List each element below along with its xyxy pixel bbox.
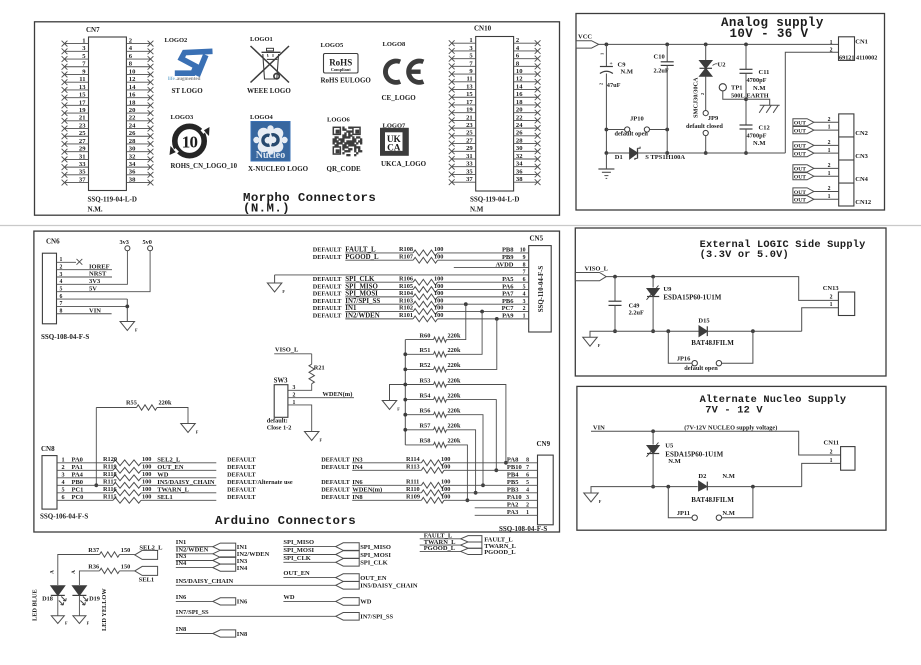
resistor R55 220k: [126, 400, 172, 411]
svg-text:6: 6: [523, 277, 526, 283]
CN10 pin 28: [514, 137, 541, 146]
svg-text:7V - 12 V: 7V - 12 V: [705, 405, 763, 417]
CN8 pin 3 PA4 row: [57, 472, 257, 479]
svg-text:19: 19: [79, 107, 86, 114]
VCC input flag: [576, 34, 599, 49]
svg-text:OUT: OUT: [794, 128, 806, 134]
svg-text:18: 18: [129, 99, 136, 106]
svg-text:PB6: PB6: [502, 298, 514, 305]
net label TWARN_L (col3): [420, 539, 461, 546]
svg-text:DEFAULT: DEFAULT: [321, 464, 350, 471]
resistor R57 220k: [405, 423, 461, 433]
svg-text:OUT: OUT: [794, 121, 806, 127]
connector CN11: [824, 440, 856, 471]
svg-text:17: 17: [466, 99, 473, 106]
CN10 pin 18: [514, 99, 541, 108]
wire U9 bottom: [652, 297, 654, 332]
wire U9 top: [652, 277, 654, 288]
CN10 pin 30: [514, 145, 541, 154]
svg-text:U9: U9: [663, 286, 672, 293]
svg-text:IN3: IN3: [176, 553, 187, 560]
CN7 pin 36: [126, 169, 153, 178]
svg-text:9: 9: [523, 255, 526, 261]
test point TP1: [719, 84, 769, 100]
wire IN4 row: [321, 464, 537, 471]
svg-text:R51: R51: [420, 347, 431, 354]
svg-text:100: 100: [434, 275, 443, 282]
wire PA2 stub: [475, 502, 538, 509]
svg-text:(3.3V or 5.0V): (3.3V or 5.0V): [700, 249, 789, 261]
svg-text:100: 100: [434, 246, 443, 253]
CN3 OUT flag 2: [793, 142, 814, 150]
node rail-C11: [744, 43, 748, 47]
wire U2-JP9: [705, 76, 707, 110]
CE logo: [383, 59, 424, 85]
svg-text:JP9: JP9: [708, 115, 719, 122]
resistor R106 100: [399, 275, 443, 285]
svg-text:14: 14: [516, 83, 523, 90]
diode D1 STPS1H100A: [615, 147, 686, 161]
svg-text:F: F: [196, 430, 199, 435]
CN7 pin 26: [126, 130, 153, 139]
svg-text:7: 7: [526, 465, 529, 471]
ground CN6: [120, 322, 135, 331]
node PB10 row: [494, 468, 498, 472]
svg-text:WDEN(m): WDEN(m): [322, 391, 352, 398]
svg-text:DEFAULT: DEFAULT: [321, 479, 350, 486]
diode D2 BAT48JFILM: [691, 473, 735, 504]
svg-text:DEFAULT: DEFAULT: [321, 457, 350, 464]
CN7 pin 35: [62, 169, 89, 178]
wire C10 bottom: [666, 65, 668, 153]
svg-text:F: F: [65, 621, 68, 626]
CN10 pin 25: [449, 130, 476, 139]
net label SPI_CLK (col2): [283, 555, 335, 563]
svg-text:IN8: IN8: [237, 631, 248, 638]
svg-text:SEL1: SEL1: [157, 494, 173, 501]
svg-text:IN6: IN6: [176, 594, 187, 601]
wire SPI_CLK row: [313, 276, 529, 283]
svg-text:3: 3: [293, 385, 296, 391]
svg-text:BAT48JFILM: BAT48JFILM: [691, 496, 734, 504]
svg-text:A: A: [71, 570, 77, 574]
ground pin7: [267, 283, 282, 292]
svg-text:NRST: NRST: [89, 271, 107, 278]
CN10 pin 1: [449, 37, 476, 46]
connector CN7: [86, 26, 126, 191]
node rail-C10: [665, 43, 669, 47]
wire C11 bottom: [745, 73, 747, 125]
svg-text:WD: WD: [360, 599, 372, 606]
wire U5 top: [652, 431, 654, 444]
capacitor C9: [599, 52, 633, 89]
svg-text:PA9: PA9: [502, 313, 514, 320]
connector CN9: [537, 440, 554, 525]
svg-text:S TPS1H100A: S TPS1H100A: [645, 154, 685, 161]
svg-text:5V: 5V: [89, 285, 97, 292]
node PB0 row: [94, 483, 98, 487]
wire C9 top: [605, 44, 607, 66]
wire R6x gnd bus: [404, 340, 406, 445]
CN10 pin 5: [449, 53, 476, 62]
svg-text:PA2: PA2: [507, 502, 518, 509]
svg-text:31: 31: [79, 153, 86, 160]
net label IN2/WDEN: [176, 546, 213, 554]
wire C49 top: [614, 277, 616, 302]
svg-text:38: 38: [129, 176, 136, 183]
svg-text:150: 150: [121, 563, 130, 570]
svg-text:PB5: PB5: [507, 479, 519, 486]
svg-text:R114: R114: [406, 456, 420, 463]
flag IN6: [213, 598, 248, 606]
svg-text:31: 31: [466, 153, 473, 160]
svg-text:CA: CA: [387, 144, 401, 154]
svg-text:DEFAULT: DEFAULT: [313, 276, 342, 283]
flag SPI_MISO (col2): [336, 543, 391, 551]
svg-text:100: 100: [441, 464, 450, 471]
wire R58 to PA10: [453, 445, 467, 500]
svg-text:EARTH: EARTH: [747, 93, 769, 100]
CN7 pin 7: [62, 61, 89, 70]
flag TWARN_L (col3): [461, 542, 517, 550]
svg-text:22: 22: [516, 114, 523, 121]
resistor R105 100: [399, 283, 443, 293]
svg-text:21: 21: [79, 115, 86, 122]
svg-text:1: 1: [828, 125, 831, 131]
svg-text:ROHS_CN_LOGO_10: ROHS_CN_LOGO_10: [171, 163, 238, 170]
CN10 pin 24: [514, 122, 541, 131]
svg-text:default:: default:: [267, 418, 288, 425]
CN10 pin 33: [449, 161, 476, 170]
svg-text:10: 10: [516, 68, 523, 75]
svg-text:PB4: PB4: [507, 472, 519, 479]
resistor R117 100: [103, 479, 151, 489]
svg-text:BAT48JFILM: BAT48JFILM: [691, 339, 734, 347]
node C11-earth: [744, 97, 748, 101]
svg-text:JP10: JP10: [630, 116, 644, 123]
svg-text:N.M: N.M: [470, 205, 484, 213]
node U2-row2: [704, 151, 708, 155]
svg-text:R104: R104: [399, 290, 414, 297]
svg-text:IN3: IN3: [237, 558, 248, 565]
svg-text:SPI_MOSI: SPI_MOSI: [345, 291, 378, 298]
flag IN2/WDEN: [213, 550, 270, 558]
svg-text:37: 37: [79, 176, 86, 183]
power pin 5v0: [143, 239, 153, 251]
svg-text:26: 26: [129, 130, 136, 137]
CN7 pin 2: [126, 38, 153, 47]
svg-text:100: 100: [142, 479, 151, 486]
svg-text:D1: D1: [615, 154, 623, 161]
svg-text:SEL1: SEL1: [139, 577, 155, 584]
svg-text:DEFAULT: DEFAULT: [313, 283, 342, 290]
svg-text:16: 16: [516, 91, 523, 98]
wire TP1 to node: [723, 91, 746, 99]
CN10 pin 13: [449, 83, 476, 92]
svg-text:15: 15: [466, 91, 473, 98]
svg-text:SPI_CLK: SPI_CLK: [345, 276, 375, 283]
svg-text:C9: C9: [618, 62, 627, 69]
svg-text:CN6: CN6: [46, 238, 60, 246]
wire U2 top: [705, 44, 707, 60]
svg-text:R107: R107: [399, 253, 413, 260]
wire R37 left: [58, 555, 100, 586]
CN7 pin 29: [62, 146, 89, 155]
External LOGIC title: [700, 239, 866, 261]
wire R52 to PA9: [453, 319, 497, 370]
CN8 pin 6 PC0 row: [57, 494, 257, 501]
svg-text:16: 16: [129, 92, 136, 99]
svg-text:7: 7: [523, 270, 526, 276]
svg-text:22: 22: [129, 115, 136, 122]
svg-text:R113: R113: [406, 464, 420, 471]
svg-text:2.2uF: 2.2uF: [629, 310, 644, 317]
svg-text:47uF: 47uF: [607, 82, 621, 89]
svg-text:R56: R56: [420, 408, 431, 415]
net label VIN (nucleo): [593, 425, 777, 432]
svg-text:DEFAULT: DEFAULT: [313, 298, 342, 305]
svg-text:IN6: IN6: [237, 599, 248, 606]
Morpho Connectors frame: [35, 22, 560, 215]
wire PB4 stub: [507, 472, 538, 479]
svg-text:38: 38: [516, 176, 523, 183]
TVS diode U2: [693, 61, 726, 119]
svg-text:LOGO1: LOGO1: [250, 36, 273, 43]
node U5-row: [651, 485, 655, 489]
svg-text:LED BLUE: LED BLUE: [32, 589, 39, 621]
svg-text:N.M: N.M: [753, 140, 765, 147]
wire nucleo bottom row right: [708, 486, 802, 488]
CN7 pin 21: [62, 115, 89, 124]
capacitor C11: [740, 69, 770, 92]
CN8 pin 4 PB0 row: [57, 479, 293, 486]
wire R21 to SW3: [288, 384, 312, 391]
svg-text:1: 1: [82, 38, 85, 45]
svg-text:LED YELLOW: LED YELLOW: [101, 588, 108, 631]
svg-text:3v3: 3v3: [120, 239, 129, 246]
svg-text:36: 36: [129, 169, 136, 176]
svg-text:VIN: VIN: [593, 425, 605, 432]
node PB3 row: [474, 491, 478, 495]
svg-text:17: 17: [79, 99, 86, 106]
svg-text:WD: WD: [283, 594, 295, 601]
node C49-row: [613, 329, 617, 333]
resistor R37 150: [88, 547, 130, 557]
wire R37 to SEL2_L: [120, 554, 135, 556]
svg-text:D2: D2: [698, 473, 706, 480]
ground nucleo: [584, 493, 599, 502]
svg-text:N.M: N.M: [668, 458, 680, 465]
svg-text:C12: C12: [759, 125, 770, 132]
svg-text:35: 35: [79, 169, 86, 176]
svg-text:IN8: IN8: [352, 494, 363, 501]
svg-text:2: 2: [526, 503, 529, 509]
svg-text:R111: R111: [406, 479, 419, 486]
svg-text:default closed: default closed: [686, 123, 723, 130]
CN10 pin 3: [449, 45, 476, 54]
svg-text:CN11: CN11: [824, 440, 840, 447]
ROHS_CN_LOGO_10 (circle 10): [170, 126, 210, 155]
node rail-C49: [613, 275, 617, 279]
wire R55 left: [96, 407, 136, 409]
CN6 pin 7: [57, 301, 128, 307]
CN7 pin 30: [126, 146, 153, 155]
svg-text:D19: D19: [89, 596, 100, 603]
svg-text:21: 21: [466, 114, 473, 121]
svg-text:29: 29: [466, 145, 473, 152]
CN12 OUT flag 2: [793, 188, 814, 196]
resistor R120 100: [103, 456, 151, 466]
net label SPI_MOSI (col2): [283, 547, 335, 555]
svg-text:CN1: CN1: [855, 38, 868, 45]
svg-text:23: 23: [466, 122, 473, 129]
svg-text:2: 2: [828, 117, 831, 123]
Alternate Nucleo frame: [577, 386, 886, 530]
svg-text:220k: 220k: [448, 377, 461, 384]
wire C49 bottom: [614, 305, 616, 331]
svg-text:CN13: CN13: [823, 285, 840, 292]
svg-text:DEFAULT: DEFAULT: [313, 313, 342, 320]
svg-text:DEFAULT: DEFAULT: [313, 291, 342, 298]
CN10 pin 32: [514, 153, 541, 162]
CN10 pin 10: [514, 68, 541, 77]
svg-text:TWARN_L: TWARN_L: [157, 487, 189, 494]
svg-text:IN8: IN8: [176, 626, 187, 633]
svg-text:CN10: CN10: [474, 25, 492, 33]
svg-text:N.M: N.M: [722, 510, 734, 517]
svg-text:CN8: CN8: [41, 445, 55, 453]
wire VIN rail: [591, 431, 841, 455]
capacitor C10: [654, 54, 674, 75]
svg-text:N.M: N.M: [722, 473, 734, 480]
svg-text:32: 32: [129, 153, 136, 160]
net label WD (col2): [283, 594, 335, 602]
CN7 pin 10: [126, 68, 153, 77]
svg-text:SPI_MISO: SPI_MISO: [345, 283, 378, 290]
svg-text:20: 20: [516, 107, 523, 114]
CN7 pin 31: [62, 153, 89, 162]
connector CN1: [830, 37, 878, 62]
svg-text:R21: R21: [314, 365, 325, 372]
svg-text:2: 2: [830, 450, 833, 456]
svg-text:100: 100: [441, 494, 450, 501]
svg-text:Close 1-2: Close 1-2: [267, 425, 292, 432]
node rail-U5: [651, 429, 655, 433]
wire gnd stem: [605, 153, 607, 169]
svg-text:5: 5: [526, 480, 529, 486]
svg-text:100: 100: [142, 471, 151, 478]
wire C12 bottom: [745, 129, 747, 153]
svg-text:27: 27: [79, 138, 86, 145]
svg-text:DEFAULT: DEFAULT: [227, 464, 256, 471]
svg-text:34: 34: [129, 161, 136, 168]
svg-text:RoHS: RoHS: [329, 58, 352, 68]
svg-text:SW3: SW3: [274, 378, 289, 385]
svg-text:220k: 220k: [159, 400, 172, 407]
svg-text:35: 35: [466, 168, 473, 175]
CN10 value label: [470, 196, 519, 214]
svg-text:PGOOD_L: PGOOD_L: [345, 254, 379, 261]
CN7 pin 19: [62, 107, 89, 116]
CN10 pin 17: [449, 99, 476, 108]
ground logic: [583, 337, 598, 346]
wire VCC rail: [599, 43, 839, 45]
svg-text:JP11: JP11: [677, 510, 690, 517]
ground R6x bus: [382, 401, 397, 410]
node CN6 gnd: [125, 305, 129, 309]
svg-text:2: 2: [830, 47, 833, 53]
node JP10-C10: [665, 128, 669, 132]
wire SPI_MISO row: [313, 283, 529, 290]
svg-text:220k: 220k: [448, 347, 461, 354]
svg-text:100: 100: [434, 312, 443, 319]
CN8 pin 5 PC1 row: [57, 487, 257, 494]
wire IN3 row: [321, 457, 537, 464]
wire AVDD row: [454, 261, 529, 268]
wire R56 to PB5: [453, 415, 483, 486]
CN10 pin 19: [449, 107, 476, 116]
svg-text:OUT_EN: OUT_EN: [360, 575, 387, 582]
resistor R111 100: [406, 479, 450, 489]
wire R60 to PB6: [453, 304, 466, 339]
svg-text:F: F: [599, 499, 602, 504]
svg-text:N.M: N.M: [621, 69, 633, 76]
svg-text:12: 12: [516, 76, 523, 83]
wire R55 to PB0 row: [95, 408, 97, 486]
svg-text:R54: R54: [420, 392, 432, 399]
svg-text:OUT: OUT: [794, 167, 806, 173]
svg-text:PA10: PA10: [507, 494, 522, 501]
CN7 pin 33: [62, 161, 89, 170]
svg-text:DEFAULT: DEFAULT: [321, 494, 350, 501]
node JP11 left: [666, 485, 670, 489]
svg-text:R53: R53: [420, 377, 431, 384]
svg-text:150: 150: [121, 547, 130, 554]
CN2 OUT flag 1: [793, 127, 814, 135]
svg-text:PB8: PB8: [502, 247, 514, 254]
resistor R58 220k: [405, 438, 461, 448]
TVS diode U5: [647, 443, 724, 466]
svg-text:11: 11: [466, 76, 472, 83]
svg-text:30: 30: [516, 145, 523, 152]
flag IN4: [213, 564, 248, 572]
svg-text:N.M: N.M: [753, 85, 765, 92]
svg-text:PA8: PA8: [507, 457, 519, 464]
node D15-JP16: [751, 329, 755, 333]
svg-text:R52: R52: [420, 362, 431, 369]
CN7 pin 4: [126, 45, 153, 54]
svg-text:4: 4: [526, 488, 529, 494]
wire WDEN(m) row: [321, 487, 537, 494]
resistor R53 220k: [405, 377, 461, 387]
CN12 divider: [839, 182, 854, 184]
wire to CN13 pin1: [802, 308, 839, 332]
CN7 pin 20: [126, 107, 153, 116]
svg-text:DEFAULT: DEFAULT: [227, 472, 256, 479]
svg-text:DEFAULT/Alternate use: DEFAULT/Alternate use: [227, 479, 293, 486]
svg-text:Arduino Connectors: Arduino Connectors: [215, 514, 356, 528]
svg-text:PA7: PA7: [502, 291, 514, 298]
wire IN2/WDEN row: [313, 313, 529, 320]
svg-text:PB3: PB3: [507, 487, 519, 494]
CN7 pin 5: [62, 53, 89, 62]
svg-text:14: 14: [129, 84, 136, 91]
CN4 OUT flag 1: [793, 173, 814, 181]
CN10 pin 38: [514, 176, 541, 185]
wire to CN11 pin1: [802, 463, 841, 486]
CN6 pin 3: [57, 271, 113, 278]
node JP16 left: [666, 329, 670, 333]
